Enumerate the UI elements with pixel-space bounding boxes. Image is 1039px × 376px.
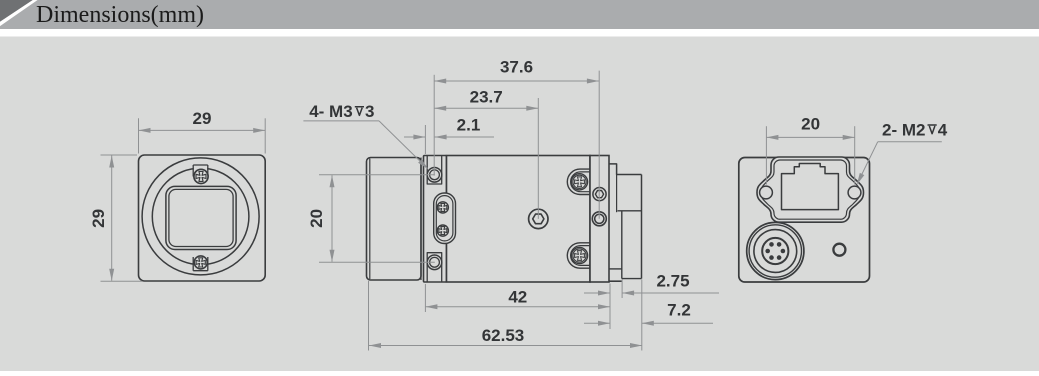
svg-text:20: 20 bbox=[307, 209, 326, 228]
svg-text:2.75: 2.75 bbox=[656, 271, 689, 290]
svg-text:37.6: 37.6 bbox=[500, 58, 533, 77]
svg-text:3: 3 bbox=[365, 102, 374, 121]
svg-text:29: 29 bbox=[89, 209, 108, 228]
svg-text:4- M3: 4- M3 bbox=[309, 102, 352, 121]
svg-text:7.2: 7.2 bbox=[667, 301, 691, 320]
svg-text:2- M2: 2- M2 bbox=[882, 120, 925, 139]
svg-text:23.7: 23.7 bbox=[470, 88, 503, 107]
svg-text:4: 4 bbox=[938, 120, 948, 139]
svg-text:20: 20 bbox=[801, 115, 820, 134]
svg-text:2.1: 2.1 bbox=[457, 116, 481, 135]
svg-text:42: 42 bbox=[508, 288, 527, 307]
svg-text:Dimensions(mm): Dimensions(mm) bbox=[36, 2, 204, 28]
svg-text:29: 29 bbox=[193, 109, 212, 128]
svg-text:62.53: 62.53 bbox=[482, 326, 525, 345]
